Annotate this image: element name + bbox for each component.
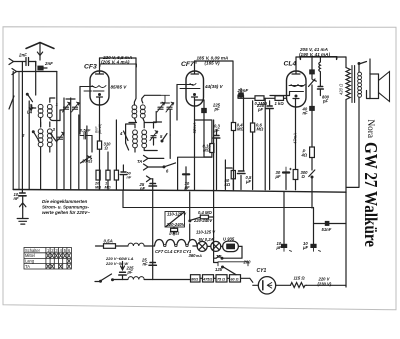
svg-text:μF: μF	[276, 245, 283, 250]
svg-text:μF: μF	[127, 270, 134, 275]
svg-text:pF: pF	[322, 99, 329, 104]
svg-text:110-125 V: 110-125 V	[167, 212, 187, 217]
svg-text:μF: μF	[275, 174, 282, 179]
svg-text:nF: nF	[143, 262, 149, 267]
svg-text:MΩ: MΩ	[95, 185, 101, 189]
svg-text:μF: μF	[245, 179, 252, 184]
svg-text:20nF: 20nF	[237, 88, 249, 93]
svg-text:2nF: 2nF	[44, 61, 53, 66]
svg-text:(230 V): (230 V)	[318, 282, 332, 287]
svg-text:CF7: CF7	[181, 61, 195, 68]
svg-text:GW 27 Walküre: GW 27 Walküre	[361, 142, 381, 247]
svg-text:μF: μF	[214, 128, 221, 133]
svg-text:TA: TA	[25, 264, 30, 269]
svg-text:85/85 V: 85/85 V	[111, 85, 128, 90]
svg-text:(190 V, 41 mA): (190 V, 41 mA)	[299, 52, 330, 57]
svg-text:(205 V, 4 mA): (205 V, 4 mA)	[101, 59, 130, 64]
svg-text:220-240V: 220-240V	[166, 222, 186, 227]
svg-text:(165 V): (165 V)	[205, 61, 221, 66]
svg-text:pF: pF	[257, 107, 264, 112]
svg-text:Strom- u. Spannungs-: Strom- u. Spannungs-	[42, 205, 89, 210]
svg-text:5V 0,2A: 5V 0,2A	[199, 237, 214, 242]
svg-text:Die eingeklammerten: Die eingeklammerten	[42, 199, 88, 204]
svg-text:kΩ: kΩ	[225, 182, 231, 187]
svg-text:MΩ: MΩ	[257, 127, 264, 132]
svg-text:75 Ω: 75 Ω	[217, 277, 225, 281]
svg-text:mA: mA	[196, 254, 202, 258]
svg-text:MΩ: MΩ	[105, 185, 111, 189]
svg-text:nF: nF	[303, 111, 309, 116]
svg-text:125: 125	[215, 267, 223, 272]
svg-text:115 Ω: 115 Ω	[294, 276, 306, 281]
svg-text:200: 200	[243, 260, 252, 265]
svg-text:420 Ω: 420 Ω	[339, 83, 344, 95]
svg-text:20kΩ: 20kΩ	[81, 159, 93, 164]
svg-text:pF: pF	[214, 107, 221, 112]
svg-text:47mA: 47mA	[292, 133, 297, 144]
svg-text:(8mA): (8mA)	[98, 123, 102, 134]
svg-text:nF: nF	[140, 186, 146, 191]
svg-text:nF: nF	[127, 175, 132, 179]
svg-text:CY1: CY1	[257, 268, 267, 274]
svg-text:62mA: 62mA	[192, 122, 197, 133]
svg-text:1 kΩ: 1 kΩ	[275, 101, 285, 106]
svg-text:110-125 V: 110-125 V	[196, 230, 216, 235]
svg-text:220-240V: 220-240V	[193, 218, 213, 223]
svg-text:Schalter: Schalter	[25, 248, 41, 253]
svg-text:MΩ: MΩ	[237, 127, 244, 132]
svg-text:TA: TA	[137, 159, 142, 164]
svg-text:μF: μF	[302, 245, 309, 250]
svg-text:0,5A: 0,5A	[104, 239, 113, 244]
svg-text:CF3: CF3	[84, 64, 97, 71]
svg-text:2nF: 2nF	[18, 53, 27, 58]
svg-text:Ω: Ω	[104, 146, 109, 151]
svg-text:Mittel: Mittel	[25, 253, 35, 258]
svg-text:nF: nF	[14, 196, 20, 201]
svg-text:CL4: CL4	[284, 61, 297, 68]
svg-text:U 935: U 935	[223, 236, 235, 241]
svg-text:44(35) V: 44(35) V	[204, 84, 224, 89]
svg-text:0,5μF: 0,5μF	[80, 128, 91, 133]
svg-text:475Ω: 475Ω	[202, 277, 212, 281]
svg-text:werte gelten für 220V~: werte gelten für 220V~	[42, 210, 90, 215]
svg-text:L4: L4	[27, 110, 33, 115]
svg-text:0,4 MΩ: 0,4 MΩ	[198, 210, 212, 215]
svg-text:80Ω: 80Ω	[191, 277, 198, 281]
svg-text:Nora: Nora	[366, 120, 376, 139]
svg-text:CF7 CL4 CF3 CY1: CF7 CL4 CF3 CY1	[155, 249, 192, 254]
svg-text:4Ω: 4Ω	[301, 153, 308, 158]
svg-text:TB: TB	[216, 254, 222, 259]
svg-text:20kΩ: 20kΩ	[168, 231, 180, 236]
svg-text:360: 360	[189, 253, 197, 258]
svg-text:60 Ω: 60 Ω	[231, 277, 239, 281]
svg-text:Lang: Lang	[25, 259, 35, 264]
svg-text:51nF: 51nF	[322, 227, 332, 232]
svg-text:MΩ: MΩ	[203, 148, 210, 153]
svg-text:μF: μF	[184, 185, 191, 190]
svg-text:Ω: Ω	[301, 174, 306, 179]
